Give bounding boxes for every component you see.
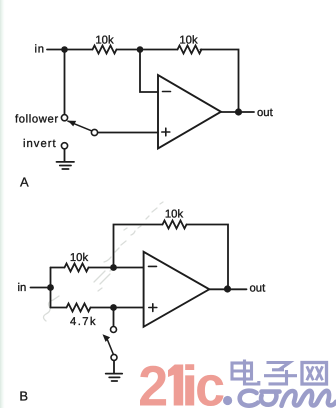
wire in (B) — [31, 287, 51, 289]
logo hanzi wang — [302, 363, 327, 385]
resistor R1 10k — [93, 46, 117, 54]
wire to R5 — [51, 307, 67, 309]
svg-text:in: in — [18, 282, 27, 294]
node B-in junction dot — [47, 284, 54, 291]
resistor R4 10k — [65, 264, 89, 272]
node A2 junction dot — [137, 46, 144, 53]
svg-text:10k: 10k — [95, 35, 114, 47]
wire R4 to inverting input — [89, 267, 144, 269]
wire invert contact to ground — [64, 149, 66, 161]
wire output A — [221, 111, 254, 113]
wire A2 down to inverting input — [140, 53, 158, 93]
switch S1 follower contact — [61, 115, 67, 121]
wire to R4 — [51, 267, 65, 269]
svg-text:A: A — [20, 174, 29, 189]
svg-text:B: B — [19, 388, 28, 403]
wire B2 down to switch contact — [113, 311, 115, 327]
logo script com — [240, 391, 336, 406]
svg-text:10k: 10k — [70, 252, 89, 264]
svg-text:out: out — [250, 283, 267, 295]
svg-text:10k: 10k — [165, 209, 184, 221]
op-amp U1 — [158, 75, 221, 149]
wire pole to non-inverting input — [98, 132, 158, 134]
resistor R5 4.7k — [67, 304, 91, 312]
wire pole to ground — [113, 361, 115, 373]
wire R1 to R2 — [117, 49, 178, 51]
pin minus U1 — [163, 91, 171, 93]
switch S1 invert contact — [61, 143, 67, 149]
wire feedback top left — [114, 225, 163, 268]
switch S2 arrowhead — [103, 334, 111, 342]
svg-text:invert: invert — [23, 138, 57, 150]
svg-text:i: i — [181, 355, 199, 408]
node B2 junction dot — [110, 304, 117, 311]
wire input split vertical — [50, 268, 52, 308]
logo digit 1 of 21ic — [168, 365, 183, 406]
switch S2 top contact — [111, 327, 117, 333]
logo dot of .com — [223, 396, 232, 405]
logo hanzi dian — [232, 360, 259, 385]
switch S1 pole contact — [91, 129, 97, 135]
wire output B — [209, 288, 246, 290]
node out (B) junction dot — [224, 285, 231, 292]
pin plus U1 — [162, 128, 170, 136]
op-amp U2 — [144, 252, 210, 327]
switch S1 arm — [68, 121, 92, 131]
wire feedback top right down to output — [187, 225, 229, 290]
logo text 21ic — [138, 355, 225, 408]
svg-text:4.7k: 4.7k — [70, 316, 97, 328]
node A1 junction dot — [61, 46, 68, 53]
svg-text:10k: 10k — [179, 35, 198, 47]
svg-text:follower: follower — [15, 114, 59, 126]
wire A1 down to follower contact — [64, 53, 66, 115]
wire in to junction A1 — [47, 49, 93, 51]
svg-text:in: in — [35, 44, 45, 56]
switch S1 arrowhead — [68, 121, 76, 127]
node out (A) junction dot — [235, 108, 242, 115]
ground (B) — [106, 374, 123, 381]
switch S2 arm — [108, 340, 114, 354]
resistor R3 10k feedback — [163, 221, 187, 229]
svg-text:out: out — [257, 107, 274, 119]
wire R2 to top-right corner then down to output — [201, 50, 239, 113]
switch S2 pole contact — [111, 354, 117, 360]
pin plus U2 — [149, 304, 157, 312]
scan edge tint — [0, 0, 5, 408]
resistor R2 10k — [178, 46, 202, 54]
logo hanzi zi — [264, 363, 297, 384]
svg-text:2: 2 — [138, 355, 168, 408]
ground (A) — [57, 162, 75, 169]
svg-text:c: c — [195, 355, 225, 408]
pin minus U2 — [149, 265, 157, 267]
node B1 junction dot — [110, 264, 117, 271]
wire R5 to non-inverting input — [91, 307, 144, 309]
